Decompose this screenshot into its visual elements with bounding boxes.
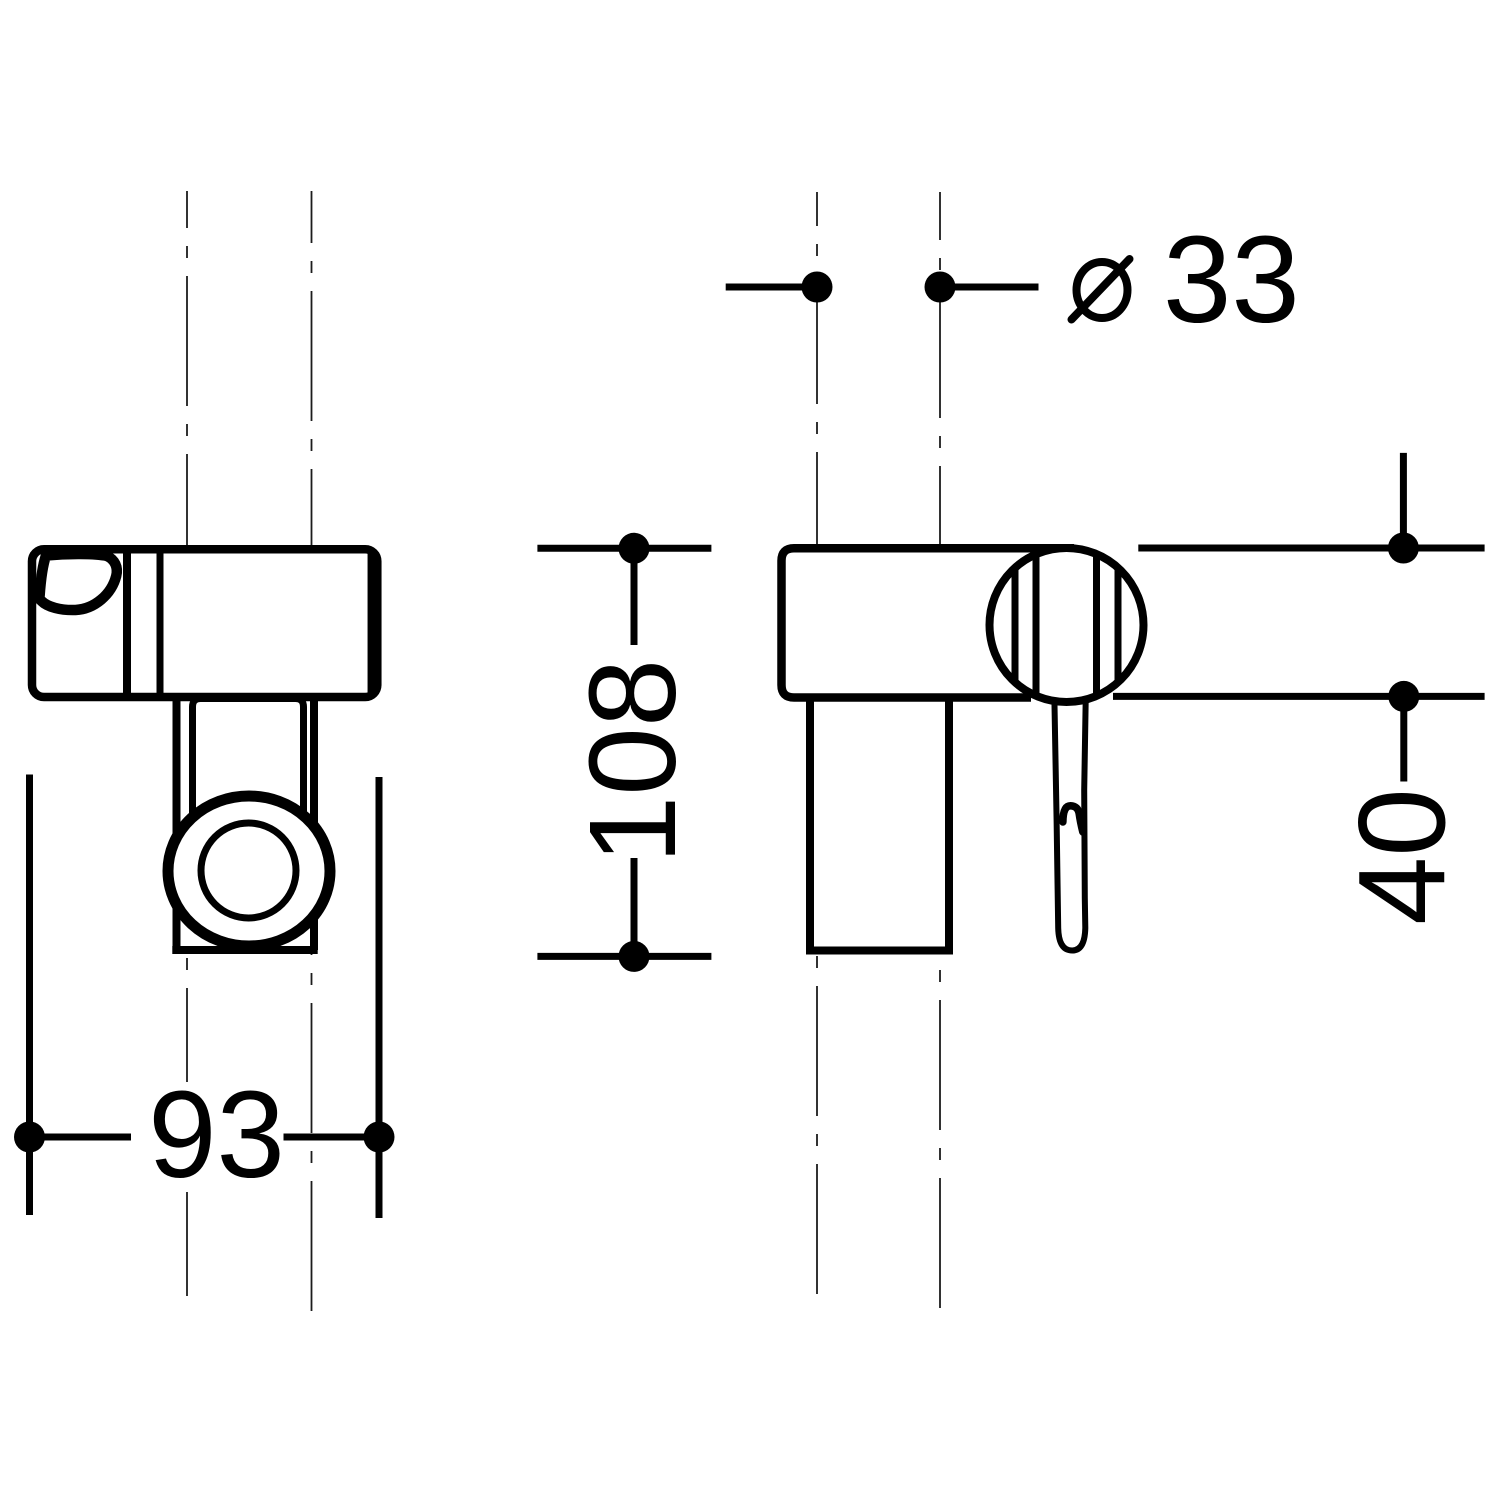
right view: bar fill: [782, 548, 1102, 697]
right view: lever: [1054, 694, 1086, 951]
left view: stem interior fill: [173, 693, 318, 950]
dim 93: extension lines: [26, 775, 33, 1216]
dim 40: bottom: [1113, 693, 1485, 700]
dim 93: halo: [150, 1082, 284, 1192]
left view: bar band line 1: [123, 549, 131, 697]
svg-text:33: 33: [1163, 212, 1300, 349]
left view: bar band line 2: [157, 549, 164, 697]
dim 93: lines and dots: [30, 1134, 132, 1141]
right view: stem walls and bottom: [806, 695, 953, 951]
right view: bar outline: [782, 548, 1075, 697]
dim diameter 33: lines and dots: [726, 284, 817, 291]
left view: bar left inner short line: [41, 552, 48, 599]
svg-text:108: 108: [565, 659, 702, 864]
centerline left B: [311, 191, 313, 1313]
left view: cone blob: [40, 554, 117, 610]
dim 40: top: [1400, 453, 1407, 548]
centerline left A: [186, 191, 188, 1313]
left view: stem bottom edge: [172, 946, 317, 954]
left view: stem inner contour: [193, 699, 304, 829]
centerline right A: [816, 192, 818, 1310]
left view: outer ring (ellipse): [168, 796, 330, 946]
svg-text:40: 40: [1335, 788, 1472, 925]
left view: stem walls: [177, 695, 315, 950]
right view: lever inner edge: [1063, 806, 1083, 832]
dim diameter symbol: [1077, 262, 1128, 318]
left view: bar body: [32, 549, 377, 697]
right view: knob chords: [1015, 549, 1118, 701]
svg-text:93: 93: [148, 1067, 285, 1204]
centerline right B: [939, 192, 941, 1310]
left view: bar right inner line: [368, 552, 375, 695]
right view: knob circle: [990, 548, 1144, 702]
right view: stem interior fill: [806, 693, 953, 951]
dim 108: top line: [537, 545, 711, 552]
dim 108: bottom line: [631, 858, 638, 956]
left view: inner circle: [201, 823, 296, 918]
